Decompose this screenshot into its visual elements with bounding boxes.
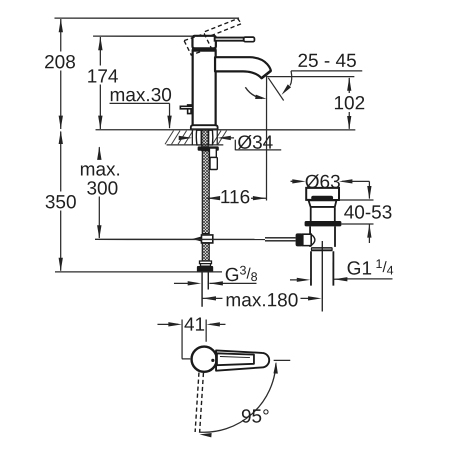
dashed rotated cartridge head: [184, 34, 211, 55]
dimension 350: [45, 130, 77, 271]
aerator reference line: [267, 76, 354, 78]
countertop underside line: [167, 144, 224, 146]
hose end connector: [199, 261, 211, 266]
countertop section hatching: [165, 131, 227, 145]
svg-text:300: 300: [86, 178, 118, 199]
dimension 208: [44, 19, 76, 129]
flexible supply hose lower: [202, 243, 209, 261]
pop-up tailpipe: [311, 251, 333, 285]
supply pipe below: [202, 272, 208, 306]
lever handle side view: [215, 37, 255, 42]
mounting nut: [198, 146, 219, 150]
top view body circle: [192, 347, 217, 372]
top reference line (dashed lever tip level): [54, 17, 239, 19]
svg-text:102: 102: [333, 93, 365, 114]
dashed rotated lever (top view): [195, 373, 203, 433]
top view lever rod: [217, 353, 254, 365]
dimension max.300: [80, 146, 121, 238]
dimension 102: [333, 77, 365, 129]
faucet body: [193, 50, 216, 126]
pop-up plug: [311, 196, 333, 200]
flexible supply hose upper: [202, 151, 209, 234]
pop-up body: [310, 226, 335, 247]
pop-up funnel: [309, 200, 337, 207]
95 degree arc: [199, 360, 290, 437]
label G3/8: [174, 263, 258, 286]
svg-text:25 - 45: 25 - 45: [297, 51, 356, 72]
svg-text:350: 350: [45, 192, 77, 213]
dimension Ø63: [291, 172, 370, 193]
cartridge head: [192, 36, 216, 52]
flow direction curved arrow: [245, 87, 266, 99]
countertop top line: [96, 129, 356, 131]
svg-text:95°: 95°: [241, 407, 270, 428]
ball rod housing: [303, 234, 315, 245]
svg-text:116: 116: [220, 187, 250, 208]
threaded shank: [202, 130, 208, 150]
supply hose tails in hole: [196, 130, 213, 145]
svg-text:max.: max.: [80, 159, 121, 180]
base flange: [191, 125, 218, 129]
pop-up locknut: [305, 221, 342, 226]
dimension max.180: [202, 290, 321, 311]
svg-text:max.180: max.180: [225, 290, 298, 311]
horizontal pop-up rod: [95, 238, 296, 241]
top view pivot dot: [211, 359, 214, 362]
pop-up centre rod: [321, 241, 323, 312]
svg-text:40-53: 40-53: [344, 203, 393, 224]
datum line 350 bottom: [55, 271, 222, 273]
svg-text:Ø34: Ø34: [237, 133, 273, 154]
pop-up pull rod: [180, 105, 192, 114]
dimension max.30: [110, 85, 172, 129]
G3/8 nut: [197, 266, 213, 272]
mounting hole edges: [192, 130, 217, 145]
spout: [215, 57, 271, 78]
dimension 25 - 45: [282, 51, 363, 95]
label G1 1/4: [290, 257, 394, 282]
dimension 41: [157, 315, 225, 359]
slip ring: [311, 247, 333, 251]
dimension 40-53: [339, 181, 392, 243]
datum line max300 bottom: [94, 238, 96, 240]
second hose stub: [209, 148, 217, 170]
water stream stroke: [268, 78, 283, 101]
pop-up upper tube: [311, 208, 335, 221]
top view lever blade: [216, 350, 269, 370]
ball rod knob: [296, 233, 304, 246]
svg-text:208: 208: [44, 52, 76, 73]
dimension 174: [87, 37, 119, 129]
pop-up waste flange: [306, 188, 339, 200]
dimension 116: [207, 187, 267, 208]
svg-text:G1 1/4: G1 1/4: [347, 257, 394, 280]
dashed rotated lever: [205, 19, 242, 37]
svg-text:Ø63: Ø63: [305, 172, 341, 193]
svg-text:41: 41: [184, 315, 205, 336]
hose junction fitting: [192, 235, 213, 243]
spout outlet extension line: [266, 74, 268, 201]
reference line lever level: [93, 35, 192, 37]
dimension Ø34: [179, 133, 282, 154]
